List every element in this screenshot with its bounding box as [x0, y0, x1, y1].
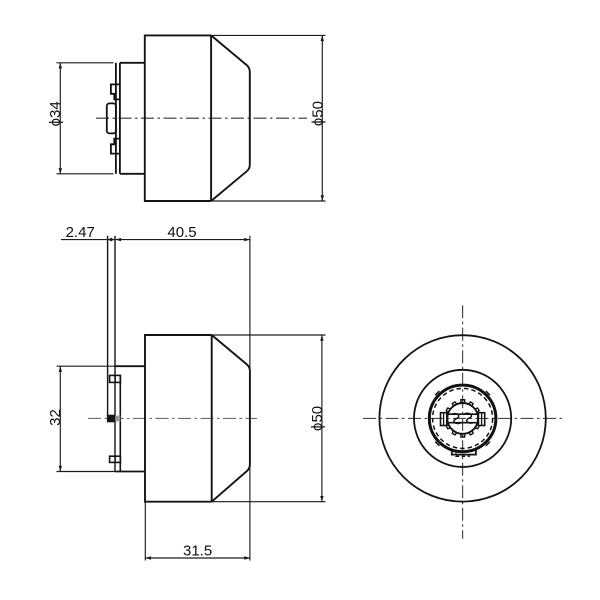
ring notch 225	[435, 442, 439, 446]
centerline vertical right view	[462, 305, 464, 539]
flange bar left line top view	[115, 63, 117, 174]
body rectangle bottom view	[145, 335, 212, 502]
arrow 40.5 right	[244, 238, 250, 241]
extension line phi50 top (y=35.4)	[211, 34, 325, 36]
ring notch 135	[435, 391, 439, 395]
arrow phi34 down	[59, 168, 62, 174]
ring notch 315	[486, 442, 490, 446]
dim line phi50 bottom view	[321, 335, 323, 502]
rail bottom line	[446, 422, 479, 424]
dim line 32	[59, 366, 61, 471]
svg-text:2.47: 2.47	[66, 224, 95, 241]
thick ring	[429, 385, 496, 452]
left bracket inner line	[443, 413, 445, 426]
body rectangle top view	[145, 35, 211, 201]
dashed tab bottom	[456, 450, 469, 456]
centerline horizontal right view	[363, 417, 563, 419]
lower tab top view	[111, 139, 120, 154]
bottom tab inner line	[114, 456, 116, 462]
flange bar right line top view	[119, 63, 121, 174]
cone face circle	[414, 370, 511, 467]
left bracket	[441, 413, 447, 426]
phi34 cylinder bottom line	[120, 173, 145, 175]
arrow phi50b down	[320, 496, 323, 502]
extension line 32 bottom / neck bottom thin	[57, 471, 116, 473]
plate left line bottom view	[107, 236, 109, 416]
svg-text:32: 32	[47, 409, 64, 426]
arrow phi34 up	[59, 63, 62, 69]
arrow 32 down	[59, 466, 62, 472]
wire hook right	[464, 413, 474, 423]
svg-text:ϕ50: ϕ50	[309, 406, 326, 431]
svg-text:ϕ34: ϕ34	[47, 101, 64, 126]
extension line phi34 bottom	[57, 173, 114, 175]
cone outline bottom view	[212, 335, 250, 502]
bar right line bottom view	[119, 375, 121, 471]
extension line phi34 top	[57, 62, 114, 64]
extension line phi50b top (y=335)	[212, 334, 326, 336]
svg-text:40.5: 40.5	[167, 224, 196, 241]
cone outline top view	[211, 35, 250, 201]
gear teeth	[446, 402, 479, 435]
gear circle	[447, 403, 478, 434]
arrow 31.5 right	[244, 556, 250, 559]
body inner vertical edge	[210, 35, 212, 201]
plate right line bottom view	[114, 236, 116, 472]
ring bottom tab	[452, 450, 476, 454]
extension line phi50 bottom (y=201)	[211, 200, 325, 202]
top tab inner line	[114, 375, 116, 382]
body inner vertical edge bottom view	[211, 335, 213, 502]
center tab top view	[107, 103, 116, 133]
dim line phi50 top view	[321, 35, 323, 201]
arrow phi50b up	[320, 335, 323, 341]
arrow 32 up	[59, 366, 62, 372]
arrow phi50 top	[321, 35, 324, 41]
dashed circle	[433, 388, 493, 448]
gear key tab bottom	[461, 434, 465, 438]
arrow phi50 bottom	[321, 195, 324, 201]
dim line 2.47	[61, 239, 107, 241]
phi34 cylinder top line	[120, 62, 145, 64]
top tab bottom view	[110, 375, 121, 382]
bottom tab bottom view	[110, 456, 121, 462]
neck top thick line	[115, 365, 145, 367]
outer circle phi50	[379, 335, 545, 501]
arrow 2.47 right tip	[107, 238, 112, 241]
rail top line	[446, 413, 479, 415]
arrow 31.5 left	[145, 556, 151, 559]
ring notch 45	[486, 391, 490, 395]
dim line 40.5	[115, 239, 250, 241]
extension line phi50b bottom (y=501.7)	[212, 501, 326, 503]
right bracket	[478, 413, 484, 426]
extension line 40.5/31.5 right (x=249.9)	[249, 236, 251, 561]
middle tab filled bottom view	[107, 415, 115, 423]
wire hook left	[452, 414, 462, 424]
dim line phi34	[59, 63, 61, 174]
centerline top view	[96, 117, 307, 119]
middle tab gray part	[115, 416, 120, 422]
extension line 31.5 left	[144, 502, 146, 561]
svg-text:31.5: 31.5	[183, 542, 212, 559]
dim line 31.5	[145, 557, 250, 559]
right bracket inner line	[481, 413, 483, 426]
arrow 40.5 left	[115, 238, 121, 241]
neck bottom thick line	[115, 471, 145, 473]
centerline bottom view	[88, 417, 257, 419]
svg-text:ϕ50: ϕ50	[309, 101, 326, 126]
upper tab top view	[111, 84, 120, 99]
extension line 32 top / neck top thin	[57, 365, 116, 367]
gear key tab top	[461, 400, 465, 404]
